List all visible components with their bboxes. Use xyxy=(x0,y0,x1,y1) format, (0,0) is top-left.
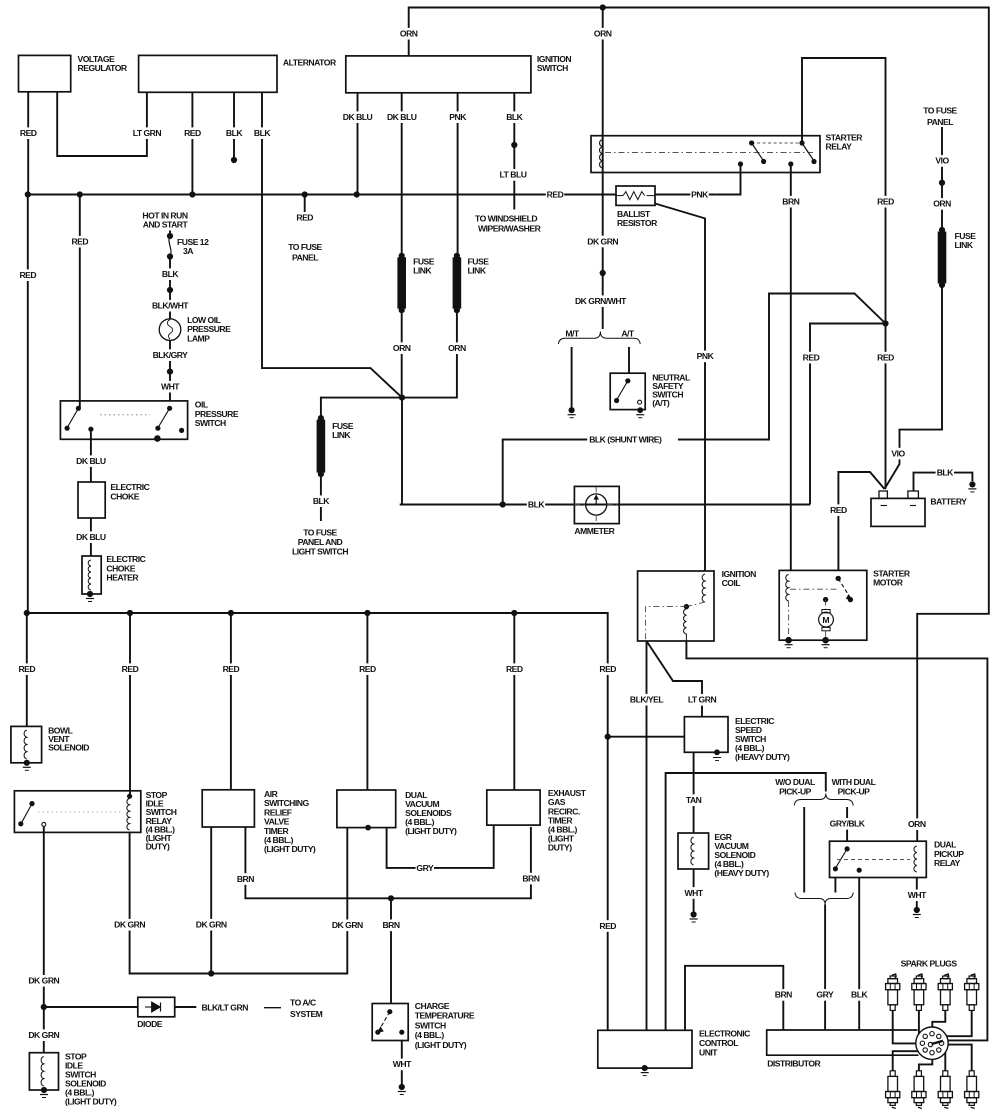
junction: RED bus / fuse panel stub xyxy=(302,191,308,197)
label: ORN xyxy=(393,342,411,354)
wire: M/T lead to ground xyxy=(571,347,573,410)
ballist resistor box xyxy=(616,186,655,205)
stop idle switch solenoid box xyxy=(29,1053,58,1090)
ground: starter motor xyxy=(785,644,793,646)
svg-text:WHT: WHT xyxy=(161,382,180,392)
svg-text:M/T: M/T xyxy=(565,329,580,339)
svg-text:GRY: GRY xyxy=(416,863,434,873)
splice: BLK-GRY / WHT xyxy=(167,369,173,375)
svg-text:RED: RED xyxy=(877,197,894,207)
label: RED xyxy=(121,663,139,675)
svg-text:PNK: PNK xyxy=(697,351,715,361)
svg-text:RED: RED xyxy=(359,664,376,674)
label: DK GRN xyxy=(586,236,619,248)
junction: DK GRN / diode xyxy=(41,1004,47,1010)
svg-text:DK GRN: DK GRN xyxy=(587,236,618,246)
svg-text:CHOKE: CHOKE xyxy=(110,491,139,501)
wire: charge temp switch WHT to ground xyxy=(401,1041,403,1085)
svg-text:DUTY): DUTY) xyxy=(146,842,170,852)
label: RED xyxy=(876,196,894,208)
electric choke box xyxy=(78,482,105,518)
wire: ammeter RED riser to starter relay junction xyxy=(810,324,886,505)
label: WHT xyxy=(908,890,926,902)
label: ORN xyxy=(594,28,612,40)
wire: alternator BLK long lead to ORN junction xyxy=(262,92,402,397)
svg-text:WHT: WHT xyxy=(393,1059,412,1069)
ground: charge temp switch WHT xyxy=(399,1084,405,1090)
splice: BLK / LT BLU xyxy=(511,142,517,148)
wire: BLK shunt wire horizontal xyxy=(503,439,769,441)
svg-text:VIO: VIO xyxy=(891,448,905,458)
label: DK GRN xyxy=(331,920,364,932)
svg-text:PICK-UP: PICK-UP xyxy=(779,786,812,796)
svg-text:M: M xyxy=(822,615,829,625)
wire: dual pickup relay WHT to ground xyxy=(916,878,918,908)
label: BLK xyxy=(505,111,523,123)
label: RED xyxy=(358,663,376,675)
label: RED xyxy=(505,663,523,675)
svg-text:AND START: AND START xyxy=(143,220,189,230)
wire: ignition switch BLK / LT BLU lead to wiper xyxy=(513,93,515,210)
electronic control unit box xyxy=(598,1030,692,1068)
label: RED xyxy=(876,352,894,364)
svg-text:BLK/GRY: BLK/GRY xyxy=(153,350,189,360)
fuse link (to fuse panel / light switch) xyxy=(317,420,326,473)
junction: RED / electric speed switch feed xyxy=(605,734,611,740)
fuse link (DK BLU/ORN) xyxy=(397,257,406,308)
label: VIO xyxy=(889,448,907,460)
svg-text:BLK/YEL: BLK/YEL xyxy=(630,695,664,705)
label: RED xyxy=(599,663,617,675)
svg-text:SWITCH: SWITCH xyxy=(415,1020,446,1030)
wire: BLK node horizontal through ammeter xyxy=(400,504,575,506)
wire: air switching timer BRN xyxy=(245,827,531,898)
label: GRY xyxy=(416,862,434,874)
wire: ignition coil output to distributor (right border) xyxy=(686,641,987,1040)
label: PNK xyxy=(690,189,708,201)
svg-text:RED: RED xyxy=(20,128,37,138)
label: DK BLU xyxy=(75,455,108,467)
wire: lower RED bus xyxy=(28,613,608,1030)
wire: starter relay RED to battery xyxy=(802,58,886,489)
label: RED xyxy=(829,504,847,516)
fuse link (PNK/ORN) xyxy=(453,257,462,308)
label: BLK xyxy=(312,495,330,507)
junction: ORN node xyxy=(399,395,405,401)
wire: LT GRN coil negative to electric speed switch xyxy=(647,641,703,717)
svg-text:RED: RED xyxy=(18,664,35,674)
svg-text:RED: RED xyxy=(877,352,894,362)
svg-text:ORN: ORN xyxy=(400,29,418,39)
dash to A/C system xyxy=(264,1007,281,1009)
svg-text:BLK: BLK xyxy=(254,128,271,138)
label: BLK/GRY xyxy=(151,349,189,361)
svg-text:RED: RED xyxy=(547,190,564,200)
svg-text:TEMPERATURE: TEMPERATURE xyxy=(415,1011,475,1021)
svg-text:DIODE: DIODE xyxy=(137,1019,162,1029)
svg-text:SPARK PLUGS: SPARK PLUGS xyxy=(901,959,958,969)
wire: A/T lead to neutral safety switch xyxy=(628,347,630,373)
label: BLK xyxy=(253,127,271,139)
junction: top ORN line xyxy=(600,4,606,10)
svg-text:WHT: WHT xyxy=(685,888,704,898)
svg-text:PICK-UP: PICK-UP xyxy=(838,786,871,796)
svg-text:LINK: LINK xyxy=(468,266,487,276)
svg-text:HEATER: HEATER xyxy=(106,573,139,583)
wire: ballist resistor output PNK xyxy=(655,194,716,196)
label: WHT xyxy=(684,887,702,899)
wire: GRY to distributor xyxy=(824,905,826,1031)
svg-text:RELAY: RELAY xyxy=(934,858,961,868)
wire: RED lead to oil pressure switch xyxy=(79,195,81,409)
svg-text:DK BLU: DK BLU xyxy=(76,532,106,542)
svg-text:BLK: BLK xyxy=(313,496,330,506)
M/T A/T split brace xyxy=(558,332,640,345)
splice: VIO / ORN xyxy=(939,180,945,186)
junction: lower RED bus / EGR timer xyxy=(511,610,517,616)
wire: ballist resistor diagonal PNK to ignition coil xyxy=(655,204,705,572)
wire: ECU pick-up lead xyxy=(666,773,826,1030)
svg-text:DK BLU: DK BLU xyxy=(76,456,106,466)
svg-text:RED: RED xyxy=(830,505,847,515)
svg-text:BLK: BLK xyxy=(937,468,954,478)
svg-text:LINK: LINK xyxy=(332,430,351,440)
svg-text:RESISTOR: RESISTOR xyxy=(617,218,658,228)
svg-text:SOLENOID: SOLENOID xyxy=(48,743,89,753)
wire: stop idle relay coil RED feed xyxy=(129,791,131,796)
svg-text:(LIGHT DUTY): (LIGHT DUTY) xyxy=(264,844,316,854)
svg-text:DUTY): DUTY) xyxy=(548,843,572,853)
wire: starter relay BRN to starter motor xyxy=(790,164,792,570)
label: BLK/WHT xyxy=(151,300,189,312)
battery xyxy=(871,498,925,526)
svg-text:RED: RED xyxy=(223,664,240,674)
distributor cap xyxy=(916,1027,948,1059)
svg-text:BLK: BLK xyxy=(851,990,868,1000)
starter relay contacts xyxy=(752,142,802,144)
svg-text:TO FUSE: TO FUSE xyxy=(923,106,957,116)
label: BLK xyxy=(936,467,954,479)
label: GRY xyxy=(816,989,834,1001)
svg-text:RED: RED xyxy=(122,664,139,674)
svg-text:PNK: PNK xyxy=(691,190,709,200)
wire: EGR vacuum solenoid WHT to ground xyxy=(693,869,695,912)
label: LT GRN xyxy=(683,694,721,706)
label: DK BLU xyxy=(75,531,108,543)
diode xyxy=(138,997,175,1017)
wire: DK BLU oil pressure switch to electric choke xyxy=(90,429,92,482)
svg-text:RED: RED xyxy=(296,213,313,223)
junction: RED bus / alternator RED xyxy=(189,191,195,197)
wire: ORN junction to third fuse link xyxy=(321,398,402,418)
ground: stop idle solenoid xyxy=(40,1094,48,1096)
fuse 12 terminal (bottom) xyxy=(167,253,173,259)
alternator box xyxy=(139,55,277,92)
svg-text:ORN: ORN xyxy=(393,343,411,353)
brace: pick-up merge (lower) xyxy=(795,893,853,905)
svg-text:UNIT: UNIT xyxy=(699,1047,718,1057)
wire: TO FUSE PANEL stub xyxy=(304,195,306,213)
svg-text:SYSTEM: SYSTEM xyxy=(290,1009,323,1019)
wire: W/O dual pick-up branch xyxy=(803,807,805,893)
label: WHT xyxy=(161,381,179,393)
svg-text:LIGHT SWITCH: LIGHT SWITCH xyxy=(292,547,348,557)
svg-text:BATTERY: BATTERY xyxy=(930,497,967,507)
svg-text:DK GRN: DK GRN xyxy=(28,1030,59,1040)
junction: BLK node xyxy=(500,501,506,507)
svg-text:COIL: COIL xyxy=(722,578,741,588)
wire: fuse 12 circuit chain xyxy=(169,231,171,237)
wire: alternator RED lead xyxy=(191,92,193,194)
wire: alternator BLK stub xyxy=(233,92,235,160)
svg-text:BLK (SHUNT WIRE): BLK (SHUNT WIRE) xyxy=(589,435,662,445)
svg-text:TO FUSE: TO FUSE xyxy=(288,242,322,252)
charge temperature switch box xyxy=(372,1004,408,1041)
brace: pick-up selector (upper) xyxy=(794,794,853,806)
label: WHT xyxy=(393,1059,411,1071)
svg-text:BRN: BRN xyxy=(782,197,799,207)
svg-text:BRN: BRN xyxy=(237,874,254,884)
ammeter box xyxy=(574,486,619,523)
splice: alternator BLK stub xyxy=(231,157,237,163)
wire: left RED drop to lower bus xyxy=(27,195,29,614)
starter motor box xyxy=(779,570,867,640)
label: BRN xyxy=(782,196,800,208)
svg-text:DK GRN: DK GRN xyxy=(28,976,59,986)
label: RED xyxy=(546,189,564,201)
label: RED xyxy=(296,212,314,224)
ground: dual pickup relay WHT xyxy=(914,907,920,913)
ground: neutral safety switch xyxy=(636,414,644,416)
label: ORN xyxy=(908,818,926,830)
svg-text:BRN: BRN xyxy=(522,873,539,883)
wire: ignition switch DK BLU lead 2 to fuse link xyxy=(401,93,403,256)
wire: dual vacuum solenoids GRY loop xyxy=(387,825,494,868)
svg-text:DK GRN: DK GRN xyxy=(114,920,145,930)
spark plugs (bottom row) xyxy=(890,1071,895,1077)
svg-text:CHARGE: CHARGE xyxy=(415,1001,450,1011)
dual vacuum solenoids box xyxy=(337,790,396,828)
label: ORN xyxy=(448,342,466,354)
starter relay coil xyxy=(600,140,603,169)
svg-text:AMMETER: AMMETER xyxy=(574,526,615,536)
label: TAN xyxy=(684,794,702,806)
label: DK GRN xyxy=(27,1029,60,1041)
low oil pressure lamp xyxy=(159,319,181,341)
exhaust gas recirc timer box xyxy=(487,790,540,825)
svg-text:LT GRN: LT GRN xyxy=(133,128,162,138)
stop idle switch relay box xyxy=(14,791,140,833)
wire: RED junction feed to electric speed switch xyxy=(608,736,685,738)
splice: BLK / BLK-WHT xyxy=(167,287,173,293)
label: BRN xyxy=(236,873,254,885)
wire: battery RED to starter motor xyxy=(838,472,884,570)
ignition coil box xyxy=(638,571,714,641)
label: BRN xyxy=(522,873,540,885)
junction: DK GRN bus xyxy=(208,970,214,976)
label: DK BLU xyxy=(385,111,418,123)
label: BLK xyxy=(850,989,868,1001)
svg-text:VIO: VIO xyxy=(935,156,949,166)
svg-text:LT GRN: LT GRN xyxy=(688,695,717,705)
wire: BLK to distributor xyxy=(858,878,860,1031)
EGR vacuum solenoid box xyxy=(678,833,709,869)
svg-text:(HEAVY DUTY): (HEAVY DUTY) xyxy=(735,752,790,762)
svg-text:SWITCH: SWITCH xyxy=(537,63,568,73)
label: GRY/BLK xyxy=(828,818,866,830)
label: BRN xyxy=(382,920,400,932)
ground: bowl vent solenoid xyxy=(23,766,31,768)
label: ORN xyxy=(400,28,418,40)
wire: ORN junction down to BLK node xyxy=(402,398,810,505)
svg-text:RED: RED xyxy=(506,664,523,674)
label: DK GRN/WHT xyxy=(574,295,626,307)
svg-text:DK GRN: DK GRN xyxy=(332,920,363,930)
junction: lower RED bus / air switching timer xyxy=(228,610,234,616)
svg-text:(A/T): (A/T) xyxy=(652,398,670,408)
wire: starter relay PNK jumper xyxy=(716,164,740,195)
wire: BRN ECU to distributor xyxy=(685,966,783,1031)
label: RED xyxy=(183,127,201,139)
label: BLK (SHUNT WIRE) xyxy=(587,434,678,446)
svg-text:WHT: WHT xyxy=(908,890,927,900)
starter relay box xyxy=(591,136,820,173)
svg-text:BLK: BLK xyxy=(528,500,545,510)
wire: air switching timer DK GRN xyxy=(210,827,212,974)
svg-text:DISTRIBUTOR: DISTRIBUTOR xyxy=(767,1059,821,1069)
svg-text:(HEAVY DUTY): (HEAVY DUTY) xyxy=(714,868,769,878)
wire: RED drops from lower bus xyxy=(26,613,28,726)
label: RED xyxy=(222,663,240,675)
wire: ORN / DK GRN drop from top line through starter relay xyxy=(602,8,604,330)
label: ORN xyxy=(933,198,951,210)
electric choke heater box xyxy=(82,556,101,594)
svg-text:ELECTRONIC: ELECTRONIC xyxy=(699,1028,750,1038)
svg-text:RED: RED xyxy=(184,128,201,138)
label: DK GRN xyxy=(195,919,228,931)
wire: ignition switch DK BLU lead 1 xyxy=(357,93,359,195)
wire: voltage regulator to alternator LT GRN loop xyxy=(57,92,147,156)
svg-text:(LIGHT DUTY): (LIGHT DUTY) xyxy=(415,1040,467,1050)
oil pressure switch box xyxy=(60,401,187,439)
wire: stop idle relay DK GRN chain xyxy=(43,827,45,1053)
bowl vent solenoid box xyxy=(11,726,42,762)
svg-text:BLK: BLK xyxy=(226,128,243,138)
wire: battery BLK to ground xyxy=(914,473,937,491)
svg-text:GRY/BLK: GRY/BLK xyxy=(830,819,866,829)
svg-text:LAMP: LAMP xyxy=(187,333,210,343)
svg-text:DK BLU: DK BLU xyxy=(343,112,373,122)
wire: diode branch BLK/LT GRN xyxy=(44,1006,138,1008)
voltage regulator box xyxy=(19,55,71,91)
svg-text:MOTOR: MOTOR xyxy=(873,578,904,588)
ground: EGR vacuum solenoid WHT xyxy=(691,911,697,917)
wire: DK GRN bus (lower left) xyxy=(130,828,348,974)
svg-text:LT BLU: LT BLU xyxy=(500,170,527,180)
label: PNK xyxy=(696,351,714,363)
svg-text:RED: RED xyxy=(71,237,88,247)
spark plugs (top row) xyxy=(892,974,897,977)
svg-text:RED: RED xyxy=(599,921,616,931)
svg-text:PANEL: PANEL xyxy=(292,253,318,263)
junction: lower RED bus / bowl vent xyxy=(24,610,30,616)
svg-text:RED: RED xyxy=(599,664,616,674)
svg-text:BRN: BRN xyxy=(382,920,399,930)
svg-text:PNK: PNK xyxy=(449,112,467,122)
label: BLK xyxy=(225,127,243,139)
svg-text:DK GRN: DK GRN xyxy=(196,920,227,930)
label: RED xyxy=(19,127,37,139)
svg-text:PANEL AND: PANEL AND xyxy=(298,537,343,547)
label: DK GRN xyxy=(27,975,60,987)
svg-text:DK BLU: DK BLU xyxy=(387,112,417,122)
label: BLK xyxy=(161,268,179,280)
label: LT GRN xyxy=(131,127,164,139)
neutral safety switch box xyxy=(610,373,645,409)
svg-text:FUSE 12: FUSE 12 xyxy=(177,237,209,247)
svg-text:TO A/C: TO A/C xyxy=(290,998,316,1008)
label: RED xyxy=(71,236,89,248)
label: RED xyxy=(802,352,820,364)
svg-text:LINK: LINK xyxy=(955,240,974,250)
svg-text:CONTROL: CONTROL xyxy=(699,1038,738,1048)
label: RED xyxy=(19,269,37,281)
ground: battery BLK xyxy=(969,481,975,487)
svg-text:ORN: ORN xyxy=(933,199,951,209)
wire: fuse link to battery VIO xyxy=(885,285,943,489)
svg-text:LINK: LINK xyxy=(413,266,432,276)
svg-text:RELAY: RELAY xyxy=(826,142,853,152)
ground: ECU xyxy=(641,1072,649,1074)
fuse 12 terminal (top) xyxy=(167,233,173,239)
svg-text:BLK: BLK xyxy=(162,269,179,279)
svg-text:ALTERNATOR: ALTERNATOR xyxy=(283,58,337,68)
wire: right TO FUSE PANEL VIO/ORN drop xyxy=(941,127,943,230)
dual pickup relay box xyxy=(830,841,927,877)
svg-text:(4 BBL.): (4 BBL.) xyxy=(415,1030,445,1040)
svg-text:DK GRN/WHT: DK GRN/WHT xyxy=(575,296,627,306)
wire: BLK/YEL coil negative to ECU xyxy=(646,641,648,1030)
svg-text:TAN: TAN xyxy=(686,795,702,805)
svg-text:ORN: ORN xyxy=(448,343,466,353)
svg-text:SWITCH: SWITCH xyxy=(195,418,226,428)
fuse link (right ORN) xyxy=(938,232,947,284)
label: DK BLU xyxy=(341,111,374,123)
svg-text:BLK/WHT: BLK/WHT xyxy=(152,301,189,311)
wire: main RED bus (upper) xyxy=(28,194,616,196)
svg-text:PANEL: PANEL xyxy=(927,117,953,127)
svg-text:TO WINDSHIELD: TO WINDSHIELD xyxy=(475,214,537,224)
wire: WITH dual pick-up GRY/BLK branch to relay xyxy=(846,807,848,841)
spark plug wires xyxy=(893,1010,916,1043)
svg-text:BLK: BLK xyxy=(506,112,523,122)
wire: ignition switch PNK lead to fuse link xyxy=(457,93,459,256)
svg-text:GRY: GRY xyxy=(816,990,834,1000)
svg-text:BLK/LT GRN: BLK/LT GRN xyxy=(202,1003,249,1013)
label: DK GRN xyxy=(113,919,146,931)
air switching relief valve timer box xyxy=(202,790,254,827)
wire: dual pickup relay output xyxy=(834,878,836,893)
label: PNK xyxy=(448,111,466,123)
label: VIO xyxy=(933,155,951,167)
junction: lower RED bus / dual vacuum solenoids xyxy=(364,610,370,616)
svg-text:RED: RED xyxy=(19,270,36,280)
wire: electric speed switch TAN to EGR vacuum solenoid xyxy=(693,752,695,833)
splice: DK GRN / DK GRN-WHT xyxy=(600,270,606,276)
wire: voltage regulator RED lead xyxy=(27,92,29,195)
svg-text:A/T: A/T xyxy=(621,329,635,339)
svg-text:ORN: ORN xyxy=(594,29,612,39)
